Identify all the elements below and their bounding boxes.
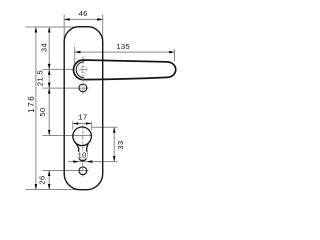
arrow 17 right [86,122,92,125]
arrow chain 170 up [48,171,51,177]
hub center tick horizontal [80,69,88,71]
extension line 135 right [174,49,176,61]
arrow 176 top [35,27,38,33]
svg-text:21.5: 21.5 [36,70,45,86]
extension line 33 top [92,126,118,128]
arrow chain 88 down [48,83,51,89]
hub inner arc [76,62,84,78]
arrow chain 69 up [48,69,51,75]
svg-text:33: 33 [116,140,125,149]
arrow chain 69 down [48,64,51,70]
extension line bottom [25,189,88,191]
screw hole bottom [79,167,87,175]
extension line top [25,26,93,28]
dimension line 33 [113,127,115,161]
arrow 33 bottom [113,156,116,162]
svg-text:176: 176 [27,95,36,113]
arrow 46 right [97,18,103,21]
dimension chain line upper [48,27,50,135]
arrow chain top [48,27,51,33]
label 10 halo [78,152,87,159]
dimension line 46 [64,18,103,20]
euro cylinder stem [76,143,88,161]
extension line cylinder center [43,135,92,137]
dimension chain line lower [48,171,50,190]
lever handle [74,60,176,80]
arrow 10 right [87,160,93,163]
arrow 176 bottom [35,184,38,190]
extension line 46 right [102,15,104,47]
euro cylinder circle [73,127,92,146]
spindle circle [80,66,87,73]
dimension line 176 [35,27,37,190]
extension line 17 right [90,121,92,129]
extension line screw1 center [43,87,89,89]
screw hole top [79,84,87,92]
dimension line 135 [75,51,175,53]
extension line hub center [43,68,74,70]
svg-text:26: 26 [38,175,47,184]
extension line 46 left [63,15,65,47]
backplate outline [64,27,103,190]
svg-text:46: 46 [79,9,88,18]
svg-text:34: 34 [40,43,49,52]
arrow 10 left [73,160,79,163]
arrow 46 left [64,18,70,21]
extension line 17 left [72,121,74,129]
extension line screw2 center [43,170,89,172]
arrow 17 left [73,122,79,125]
dimension line 10 and 33 bottom extension [68,161,118,163]
arrow chain bottom down [48,184,51,190]
hub centerline vertical [82,57,84,95]
svg-text:135: 135 [116,42,130,51]
lower centerline dashed [82,126,84,178]
arrow 33 top [113,127,116,133]
svg-text:17: 17 [78,113,87,122]
arrow 135 right [169,51,175,54]
arrow chain 135 down [48,130,51,136]
svg-text:50: 50 [38,107,47,116]
svg-text:10: 10 [78,151,87,160]
arrow 135 left [75,51,81,54]
arrow chain 88 up [48,88,51,94]
dimension line 17 [73,123,92,125]
extension line 135 left [74,47,76,65]
